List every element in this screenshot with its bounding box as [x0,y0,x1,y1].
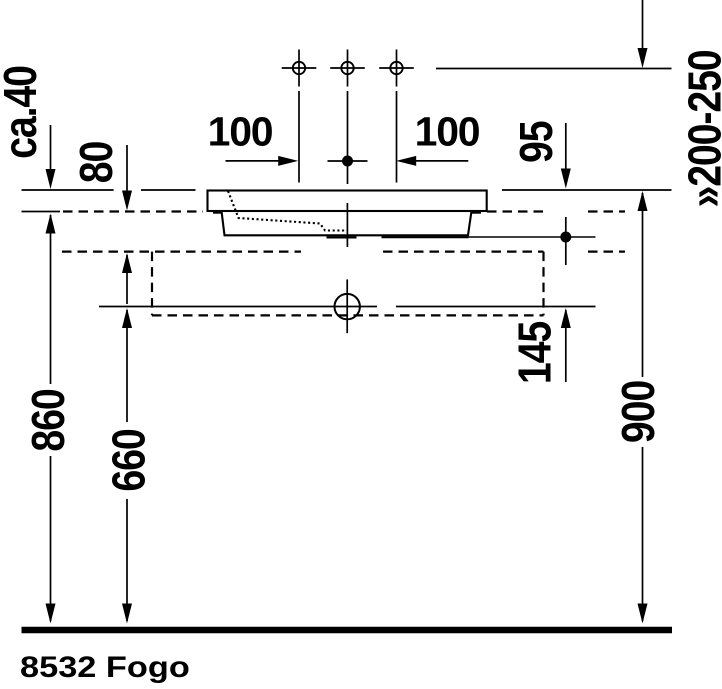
counter outline dashed left edge [151,252,153,316]
wire counter top dashed right [487,210,549,212]
wire counter top dashed left [63,210,203,212]
floor line [22,627,673,634]
wire drain level line left [99,306,377,308]
wire reference level line mid [141,189,196,191]
wire center line through basin [346,203,348,247]
svg-text:95: 95 [511,121,563,163]
svg-text:8532 Fogo: 8532 Fogo [20,650,190,683]
faucet hole circle center [330,50,365,87]
counter outline dashed right edge [542,252,544,316]
washbasin bottom thick left [327,236,357,238]
washbasin bottom thick right [382,236,469,238]
wire top reference line right [436,68,672,70]
dimension 80 arrow [122,145,132,211]
dimension ca.40 arrow [46,125,56,189]
svg-text:ca.40: ca.40 [0,66,47,159]
wire drop line right faucet [396,91,398,183]
dimension 100 left arrow [226,156,299,166]
washbasin left foot [213,212,222,214]
washbasin inner dotted profile [228,191,347,231]
dimension 900 line upper [638,191,648,377]
wire counter top dashed right end [588,210,625,212]
wire reference level line left [22,189,114,191]
dimension 660 line upper [122,308,132,422]
dimension 900 line lower [638,447,648,624]
drain hole circle [335,279,360,333]
washbasin rim [208,191,487,212]
dimension 145 arrow [561,308,571,382]
counter outline dashed top left [62,251,301,253]
wire drain level line right [396,306,596,308]
wire counter top solid left [22,211,61,213]
wire drop line center faucet [347,91,349,184]
svg-text:900: 900 [613,380,665,443]
wire reference level line right [502,189,672,191]
dimension 200-250 upper arrow [638,0,648,68]
counter outline dashed top mid [383,251,544,253]
wire drop line left faucet [298,91,300,183]
washbasin right foot [472,212,481,214]
dimension 100 right arrow [396,156,468,166]
svg-text:»200-250: »200-250 [679,50,722,207]
svg-text:100: 100 [208,109,273,155]
faucet hole circle left [282,50,317,87]
dimension 95 arrow [561,123,571,189]
svg-text:660: 660 [103,429,155,492]
dimension 660 line lower [122,499,132,624]
node faucet center dot [328,156,368,167]
counter outline dashed bottom [152,314,544,316]
faucet hole circle right [379,50,414,87]
washbasin body [222,211,472,235]
dimension 860 line lower [46,456,56,624]
node counter reference dot right [560,217,571,265]
svg-text:100: 100 [415,109,480,155]
svg-text:145: 145 [509,321,561,384]
svg-text:80: 80 [71,141,123,183]
wire basin bottom extension to dot [469,236,596,238]
dimension upper arrow at counter line [122,253,132,304]
dimension 860 line upper [46,214,56,385]
svg-text:860: 860 [23,389,75,452]
counter outline dashed top right [588,251,625,253]
